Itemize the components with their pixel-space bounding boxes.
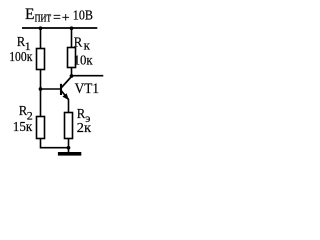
emitter arrowhead xyxy=(62,93,69,100)
transistor VT1 xyxy=(61,77,72,101)
node: ground junction xyxy=(67,146,71,150)
label Епит = +10В (supply net name) xyxy=(25,6,93,26)
label R2 xyxy=(19,104,33,123)
svg-text:R: R xyxy=(74,36,83,51)
svg-text:100к: 100к xyxy=(9,49,32,64)
svg-text:15к: 15к xyxy=(13,119,33,134)
svg-text:10к: 10к xyxy=(74,53,93,68)
svg-text:2к: 2к xyxy=(77,120,92,135)
svg-text:+: + xyxy=(62,11,70,26)
wire: Rэ bottom to ground node xyxy=(68,139,70,148)
label Rк xyxy=(74,36,91,53)
resistor Rэ xyxy=(65,113,73,139)
label R1 xyxy=(17,35,31,53)
ground xyxy=(58,152,81,156)
svg-text:VT1: VT1 xyxy=(75,81,99,97)
resistor Rк xyxy=(68,48,76,68)
resistor R2 xyxy=(37,117,45,139)
svg-text:к: к xyxy=(84,38,91,53)
svg-text:Е: Е xyxy=(25,6,34,23)
resistor R1 xyxy=(37,49,45,70)
svg-text:10В: 10В xyxy=(73,9,93,24)
wire: +10V supply rail xyxy=(22,27,97,29)
wire: rail down to R1 xyxy=(40,28,42,49)
wire: emitter down to Rэ xyxy=(68,100,70,113)
wire: R1 bottom to base node to R2 top xyxy=(40,70,42,117)
wire: R2 bottom to ground run xyxy=(41,139,69,148)
wire: collector output line to the right xyxy=(72,75,104,77)
node: voltage divider tap (base node) xyxy=(39,87,43,91)
label Rэ xyxy=(77,107,91,125)
node: rail junction to R1 branch xyxy=(39,26,43,30)
collector lead of VT1 xyxy=(62,77,72,88)
svg-text:=: = xyxy=(53,11,61,26)
base bar of VT1 xyxy=(60,84,62,95)
wire: base node to transistor base xyxy=(41,88,61,90)
wire: rail down to Rк xyxy=(71,28,73,48)
wire: ground stub xyxy=(68,148,70,152)
node: collector output junction xyxy=(70,74,74,78)
wire: Rк bottom to collector node xyxy=(71,68,73,77)
node: rail junction to Rк branch xyxy=(70,26,74,30)
svg-text:пит: пит xyxy=(35,10,52,26)
emitter lead of VT1 xyxy=(62,91,69,100)
